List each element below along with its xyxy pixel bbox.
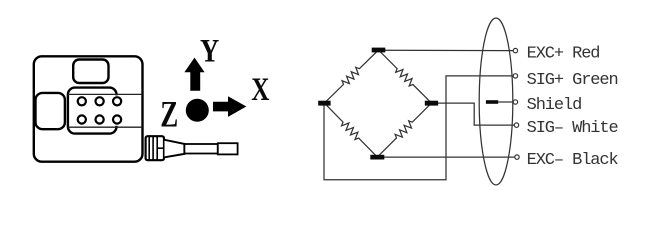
hole 2 [96,97,104,105]
svg-text:Z: Z [160,95,178,136]
resistor R1 [324,50,378,103]
cable gland [146,136,164,160]
node right [425,101,438,106]
cable end [218,143,238,154]
resistor R4 [377,103,431,157]
Z axis dot [186,99,209,122]
hole 1 [78,97,86,105]
gauge plate [68,88,117,134]
terminal SIG- [514,123,518,127]
top tab [73,60,108,84]
svg-text:Y: Y [200,33,219,69]
wire top node to EXC+ [379,49,514,51]
shield bar [486,100,498,104]
cable ellipse [479,18,513,185]
svg-text:EXC– Black: EXC– Black [527,151,619,170]
hole 3 [113,97,121,105]
cable taper [165,140,185,158]
wire shield [498,101,513,103]
svg-text:EXC+ Red: EXC+ Red [527,45,600,64]
hole 4 [78,115,86,123]
load cell body [34,56,143,161]
svg-text:SIG+ Green: SIG+ Green [527,71,618,90]
beam occlusion [112,95,142,125]
node top [372,48,386,53]
resistor R3 [324,103,377,157]
terminal SIG+ [513,74,517,78]
hole 5 [96,115,104,123]
wire bottom node to EXC- [377,156,515,158]
beam line lower [68,126,143,128]
left tab [36,93,65,129]
node bottom [370,155,384,160]
wire right node to SIG- [432,103,515,125]
terminal EXC- [515,155,519,159]
node left [318,101,330,106]
wire left node to SIG+ [324,76,513,180]
hole 6 [113,115,121,123]
terminal EXC+ [513,48,517,52]
Y axis arrow [184,58,204,91]
X axis arrow [213,96,246,117]
resistor R2 [379,50,432,103]
svg-text:SIG– White: SIG– White [527,119,619,138]
terminal Shield [513,100,517,104]
cable sleeve [184,144,217,154]
beam line upper [68,93,143,95]
svg-text:X: X [251,72,269,108]
svg-text:Shield: Shield [527,96,582,115]
